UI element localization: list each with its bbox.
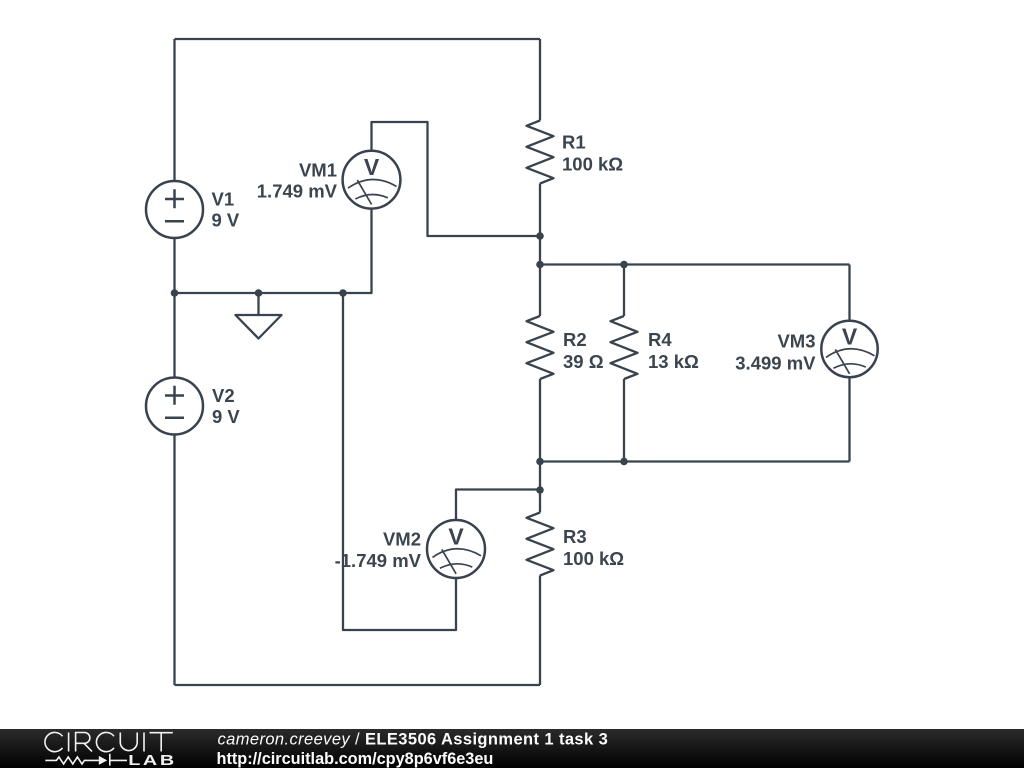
svg-text:V1: V1 — [212, 189, 235, 210]
svg-text:V2: V2 — [212, 385, 235, 406]
svg-text:VM3: VM3 — [777, 331, 815, 352]
svg-text:LAB: LAB — [128, 751, 177, 768]
svg-text:cameron.creevey / ELE3506 Assi: cameron.creevey / ELE3506 Assignment 1 t… — [218, 731, 609, 749]
svg-text:VM2: VM2 — [383, 529, 421, 550]
svg-text:9 V: 9 V — [212, 406, 240, 427]
svg-text:R4: R4 — [648, 329, 672, 350]
svg-text:3.499 mV: 3.499 mV — [735, 353, 816, 374]
svg-text:100 kΩ: 100 kΩ — [563, 548, 624, 569]
svg-text:13 kΩ: 13 kΩ — [648, 351, 699, 372]
svg-text:VM1: VM1 — [299, 160, 337, 181]
svg-text:V: V — [842, 324, 858, 350]
svg-text:39 Ω: 39 Ω — [563, 351, 604, 372]
svg-text:R3: R3 — [563, 526, 587, 547]
svg-text:R2: R2 — [563, 329, 587, 350]
svg-text:R1: R1 — [562, 132, 586, 153]
svg-text:1.749 mV: 1.749 mV — [257, 181, 338, 202]
svg-text:V: V — [364, 154, 380, 180]
svg-text:100 kΩ: 100 kΩ — [562, 154, 623, 175]
svg-text:http://circuitlab.com/cpy8p6vf: http://circuitlab.com/cpy8p6vf6e3eu — [217, 750, 494, 768]
svg-text:-1.749 mV: -1.749 mV — [335, 550, 422, 571]
svg-text:9 V: 9 V — [212, 210, 240, 231]
svg-text:V: V — [448, 524, 464, 550]
